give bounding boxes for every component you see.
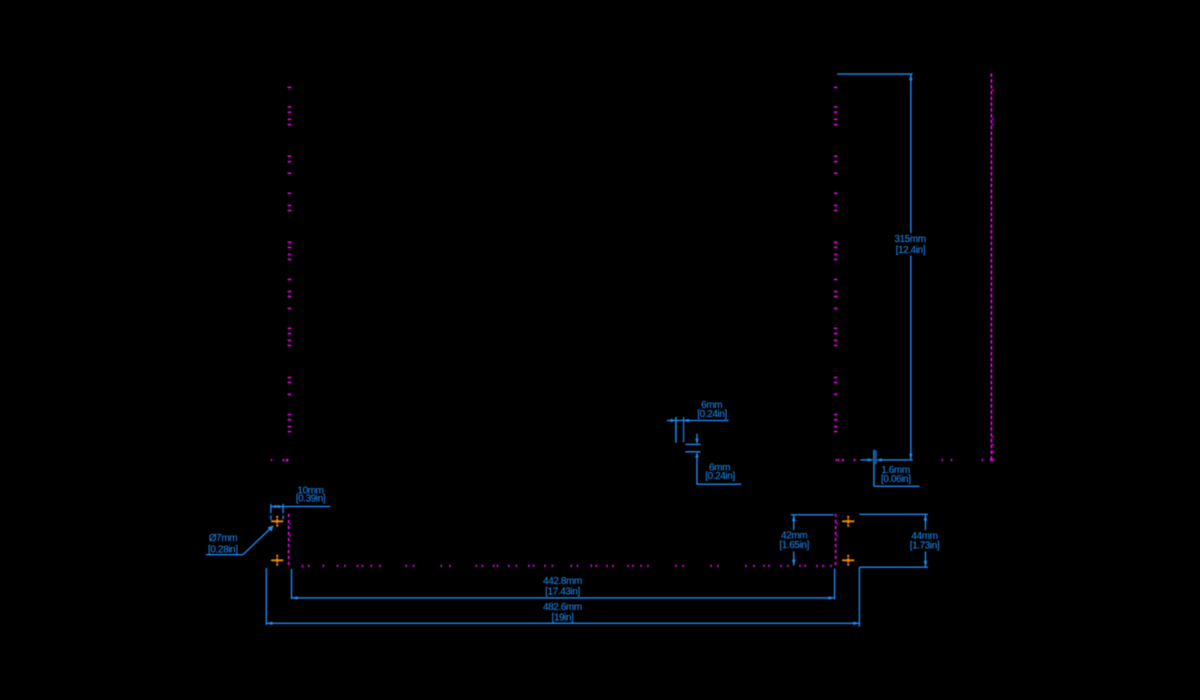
center mark hole C (right upper) [842, 516, 854, 527]
svg-text:482.6mm: 482.6mm [543, 602, 582, 613]
hidden bend line left (front view) [288, 514, 291, 565]
dimension 1.6mm [0.06in] material thickness [860, 450, 919, 487]
svg-text:442.8mm: 442.8mm [543, 576, 582, 587]
dimension 442.8mm [17.43in] between bends [291, 569, 835, 600]
svg-text:[1.73in]: [1.73in] [910, 541, 940, 552]
hidden line: bottom bend (front view) [302, 565, 832, 567]
svg-text:[0.06in]: [0.06in] [881, 474, 911, 485]
leader diameter 7mm [0.28in] mounting hole [206, 525, 274, 555]
center mark hole B (left lower) [271, 555, 283, 566]
svg-text:[0.24in]: [0.24in] [697, 409, 727, 420]
hidden line: rear flange front marks (top view far right) [942, 459, 994, 461]
hidden line: rear flange bend (top view right) [991, 73, 994, 459]
hidden line: front-right corner marks (top view) [836, 459, 856, 461]
hidden bend line right (front view) [835, 514, 838, 565]
svg-text:[1.65in]: [1.65in] [779, 540, 809, 551]
svg-text:[0.39in]: [0.39in] [296, 494, 326, 505]
dimension 482.6mm [19in] overall width [266, 567, 860, 626]
svg-text:[19in]: [19in] [551, 612, 574, 623]
dimension 10mm [0.39in] hole to edge [270, 486, 330, 520]
svg-text:[17.43in]: [17.43in] [545, 587, 580, 598]
dimension 315mm [12.4in] shelf depth [837, 73, 926, 459]
dimension 42mm [1.65in] panel inner height [779, 514, 833, 565]
hidden line: front-left corner marks (top view) [271, 459, 289, 461]
hidden line: slot edges, left side flange (top view) [288, 87, 292, 433]
svg-text:Ø7mm: Ø7mm [209, 533, 237, 544]
svg-text:[0.28in]: [0.28in] [208, 544, 238, 555]
center mark hole D (right lower) [842, 555, 854, 566]
center mark hole A (left upper) [271, 516, 283, 527]
svg-text:[12.4in]: [12.4in] [896, 245, 926, 256]
svg-text:[0.24in]: [0.24in] [705, 471, 735, 482]
dimension 6mm [0.24in] slot spacing [685, 434, 741, 485]
hidden line: slot edges, right side flange (top view) [834, 87, 838, 433]
dimension 6mm [0.24in] slot width [667, 400, 729, 443]
dimension 44mm [1.73in] panel height [859, 514, 940, 568]
svg-text:315mm: 315mm [894, 234, 925, 245]
